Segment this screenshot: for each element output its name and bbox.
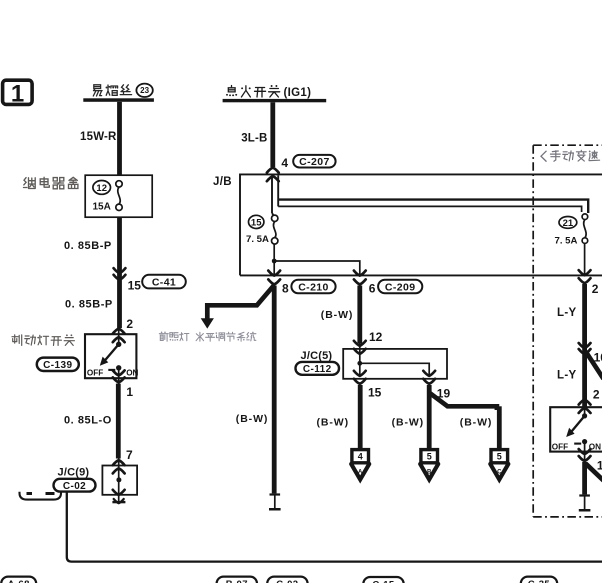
node junction below fuse 15	[272, 244, 277, 276]
connector pin 12 into J/C(5)	[354, 341, 366, 364]
pin 7 J/C(9)	[126, 448, 133, 462]
svg-text:2: 2	[592, 282, 599, 296]
manual transmission dash-dot boundary	[533, 145, 602, 517]
wire B-W pin15	[358, 385, 363, 449]
arrow connector 4A	[351, 450, 369, 480]
svg-text:3L-B: 3L-B	[241, 133, 267, 145]
svg-text:C-209: C-209	[385, 281, 416, 293]
svg-text:C-02: C-02	[276, 579, 298, 583]
bottom connector label A-68	[1, 577, 36, 583]
connector pin 6 C-209	[354, 271, 366, 285]
svg-text:(B-W): (B-W)	[317, 417, 349, 429]
pin 1 brake light switch	[126, 385, 133, 399]
svg-text:(B-W): (B-W)	[460, 417, 492, 429]
connector into J/C(9)	[113, 460, 125, 473]
pin 4 C-207	[281, 156, 288, 170]
right switch lever and contacts	[552, 413, 601, 451]
label J/C(9)	[58, 467, 90, 479]
svg-text:15W-R: 15W-R	[80, 131, 117, 143]
svg-text:B: B	[427, 470, 432, 476]
arrow connector 5B	[420, 450, 438, 480]
svg-text:12: 12	[369, 330, 383, 344]
connector pass-through pin 10	[579, 343, 591, 354]
pin 6 label	[369, 282, 376, 296]
node ignition switch IG1 header	[223, 85, 327, 102]
label 3L-B	[241, 133, 267, 145]
label 0.85L-O	[64, 414, 112, 426]
svg-text:2: 2	[126, 317, 133, 331]
svg-text:J/C(9): J/C(9)	[58, 467, 90, 479]
connector label C-41	[142, 275, 186, 289]
svg-text:L-Y: L-Y	[557, 307, 576, 319]
junction block J/B box	[240, 174, 602, 275]
connector pin 8 C-210	[268, 271, 280, 285]
wire 15W-R from fusible link	[117, 102, 122, 176]
connector out of switch	[113, 370, 125, 384]
branch to headlight leveling system	[201, 285, 275, 329]
label L-Y upper	[557, 307, 576, 319]
svg-text:7. 5A: 7. 5A	[555, 235, 578, 246]
svg-text:21: 21	[563, 218, 574, 229]
pin 1 right switch	[597, 459, 602, 473]
svg-text:15: 15	[368, 386, 382, 400]
svg-text:12: 12	[96, 183, 107, 194]
middle wire end	[269, 493, 281, 510]
svg-text:C-15: C-15	[372, 579, 395, 583]
svg-text:C: C	[497, 470, 502, 476]
svg-text:15: 15	[128, 278, 142, 292]
svg-text:23: 23	[140, 86, 149, 95]
label B-W 5B	[392, 417, 424, 429]
right wire end	[579, 494, 591, 511]
label 手动变速 manual transmission	[541, 150, 600, 161]
svg-text:7. 5A: 7. 5A	[246, 234, 269, 245]
wire pin6 down	[357, 286, 362, 344]
brake light switch box 制动灯开关	[85, 334, 136, 378]
wire L-Y upper	[582, 284, 587, 408]
svg-text:(B-W): (B-W)	[392, 417, 424, 429]
label B-W pin15	[317, 417, 349, 429]
svg-text:J/C(5): J/C(5)	[301, 350, 333, 362]
wire fuse 21 to pin 2	[584, 243, 586, 276]
label J/B	[213, 176, 232, 188]
svg-text:J/B: J/B	[213, 176, 232, 188]
pin 15 at C-41	[128, 278, 142, 292]
label L-Y lower	[557, 369, 576, 381]
branch wire pin19 to right arrow	[429, 393, 501, 450]
svg-text:(B-W): (B-W)	[321, 309, 353, 321]
label B-W pin6	[321, 309, 353, 321]
pin 2 brake light switch	[126, 317, 133, 331]
partial label A-55	[20, 492, 62, 500]
wire B-W pin19	[427, 385, 432, 449]
connector label C-210	[291, 280, 335, 294]
page number 1	[3, 80, 32, 107]
bottom connector label B-07	[217, 577, 257, 583]
fuse 12 15A in relay box	[93, 181, 123, 213]
label 0.85B-P lower	[65, 299, 113, 311]
branch diagonal at pin 10	[586, 351, 602, 378]
right switch box	[550, 407, 602, 451]
connector below J/C(9)	[112, 490, 125, 504]
node fusible-link 23 header	[83, 84, 154, 102]
pin 12 label	[369, 330, 383, 344]
label 继电器盒	[24, 177, 78, 189]
svg-text:C-207: C-207	[299, 156, 330, 168]
svg-text:15: 15	[251, 217, 262, 228]
wire 3L-B	[270, 102, 275, 167]
branch diagonal below right switch	[586, 464, 602, 481]
svg-text:6: 6	[369, 282, 376, 296]
wire B-W middle	[272, 286, 277, 494]
svg-text:C-139: C-139	[43, 360, 72, 371]
label 前照灯水平调节系统	[159, 332, 256, 342]
svg-text:7: 7	[126, 448, 133, 462]
switch lever and contacts	[87, 342, 139, 378]
label B-W middle	[236, 413, 268, 425]
connector pin 15 out of J/C(5)	[354, 371, 366, 384]
pin 15 label	[368, 386, 382, 400]
svg-text:(B-W): (B-W)	[236, 413, 268, 425]
connector into J/B	[267, 168, 279, 182]
svg-text:A-68: A-68	[8, 579, 30, 583]
label 15W-R	[80, 131, 117, 143]
svg-text:1: 1	[597, 459, 602, 473]
svg-text:A: A	[358, 470, 363, 476]
label J/C(5)	[301, 350, 333, 362]
svg-text:C-02: C-02	[63, 481, 86, 492]
pin 2 label right	[592, 282, 599, 296]
svg-text:0. 85B-P: 0. 85B-P	[64, 240, 112, 252]
svg-text:L-Y: L-Y	[557, 369, 576, 381]
wire thin into J/C9	[118, 459, 120, 469]
bottom connector label C-02	[267, 577, 307, 583]
svg-text:5: 5	[427, 452, 432, 462]
label B-W 5C	[460, 417, 492, 429]
pin 2 stop lamp switch MT	[593, 387, 600, 401]
wire 0.85B-P segment	[117, 217, 122, 328]
connector into right switch	[579, 400, 591, 416]
connector label C-209	[378, 280, 422, 294]
svg-text:8: 8	[282, 282, 289, 296]
connector label C-139	[37, 358, 79, 371]
connector label C-112	[296, 362, 340, 375]
wire 0.85L-O	[116, 384, 121, 459]
connector into switch	[113, 329, 125, 345]
fuse 15 7.5A in J/B	[246, 215, 278, 245]
svg-text:5: 5	[497, 452, 502, 462]
connector label C-207	[293, 155, 335, 168]
bottom connector label C-35	[521, 577, 557, 583]
relay box 继电器盒	[85, 175, 152, 217]
label 制动灯开关	[12, 334, 74, 345]
junction connector J/C(9) box	[102, 466, 137, 505]
svg-text:1: 1	[11, 81, 24, 108]
svg-text:2: 2	[593, 387, 600, 401]
svg-text:C-210: C-210	[298, 281, 329, 293]
svg-text:4: 4	[358, 452, 363, 462]
bottom connector label C-15	[363, 577, 403, 583]
pin 19 label	[437, 387, 451, 401]
svg-text:OFF: OFF	[552, 442, 568, 451]
connector C-41 pass-through	[114, 268, 126, 280]
svg-text:15A: 15A	[93, 202, 111, 213]
connector pin 19 out of J/C(5)	[423, 371, 435, 384]
svg-text:1: 1	[126, 385, 133, 399]
wire below right switch	[582, 462, 587, 494]
pin 10 label	[594, 350, 602, 364]
connector out of right switch	[579, 444, 591, 462]
J/B internal bus	[272, 175, 588, 215]
svg-text:0. 85L-O: 0. 85L-O	[64, 414, 112, 426]
svg-text:ON: ON	[126, 368, 138, 377]
wire branch to pin 6	[274, 261, 360, 276]
label 0.85B-P upper	[64, 240, 112, 252]
arrow connector 5C	[490, 450, 508, 480]
svg-text:0. 85B-P: 0. 85B-P	[65, 299, 113, 311]
connector label C-02	[54, 479, 96, 492]
fuse 21 7.5A in J/B	[555, 214, 588, 247]
svg-text:C-41: C-41	[152, 276, 176, 288]
wire from C-02 to bottom rail	[67, 492, 602, 562]
svg-text:C-112: C-112	[303, 364, 332, 375]
junction connector J/C(5) box	[343, 349, 447, 379]
svg-text:OFF: OFF	[87, 368, 103, 377]
pin 8 label	[282, 282, 289, 296]
svg-text:4: 4	[281, 156, 288, 170]
svg-text:B-07: B-07	[226, 579, 248, 583]
svg-text:(IG1): (IG1)	[284, 87, 312, 99]
connector pin 2 right	[579, 270, 591, 283]
svg-text:C-35: C-35	[528, 579, 551, 583]
J/C(5) internal node	[357, 361, 429, 375]
